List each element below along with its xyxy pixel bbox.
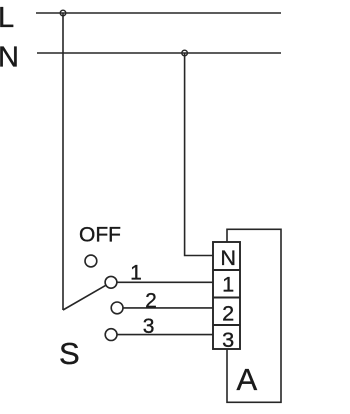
svg-text:2: 2: [145, 290, 157, 313]
svg-text:OFF: OFF: [79, 223, 121, 246]
svg-text:1: 1: [222, 271, 234, 296]
svg-text:N: N: [220, 245, 236, 270]
svg-text:2: 2: [222, 301, 234, 326]
svg-text:3: 3: [222, 327, 234, 352]
svg-text:3: 3: [143, 315, 155, 338]
svg-text:N: N: [0, 41, 19, 73]
svg-text:L: L: [0, 2, 14, 34]
svg-text:S: S: [59, 336, 80, 371]
svg-text:1: 1: [130, 261, 142, 284]
svg-text:A: A: [237, 362, 258, 397]
